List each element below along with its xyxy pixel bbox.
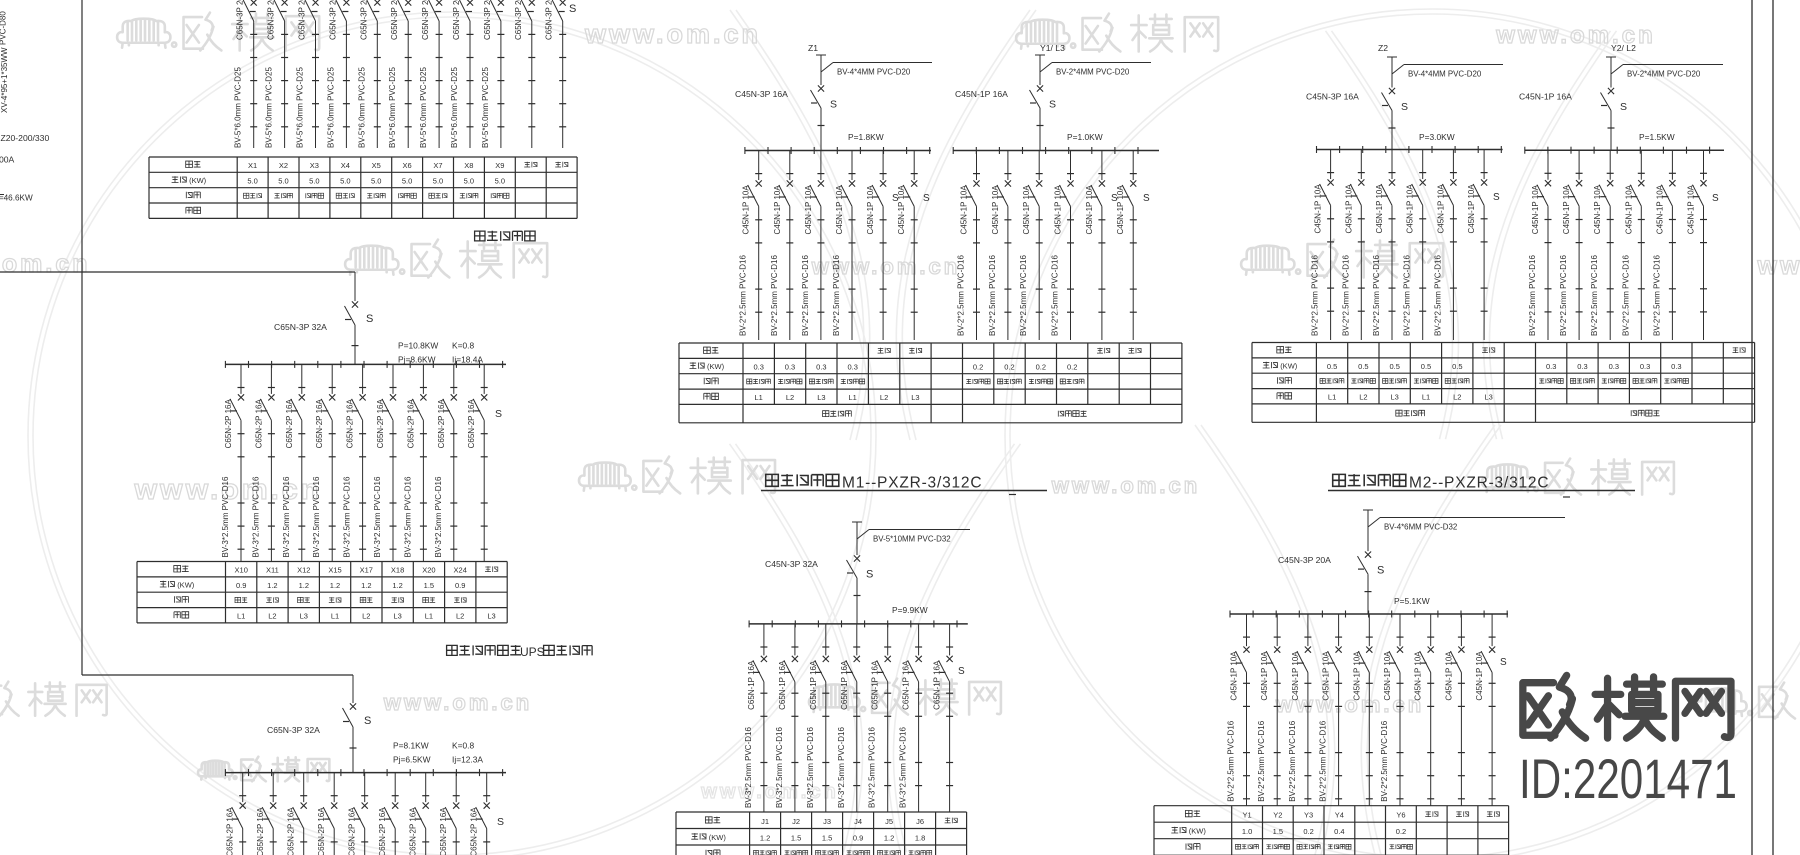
circuit C2: breaker C65N-2P 16A + wire <box>256 773 277 855</box>
svg-text:1.2: 1.2 <box>330 581 340 590</box>
svg-text:0.2: 0.2 <box>1067 362 1077 371</box>
label P=5.1KW <box>1394 596 1430 606</box>
svg-text:Pj=8.6KW: Pj=8.6KW <box>398 355 436 365</box>
svg-text:L1: L1 <box>331 611 339 620</box>
title: small machines power supply <box>475 231 535 241</box>
circuit C7: breaker C65N-2P 16A + wire <box>409 773 430 855</box>
circuit J5: breaker C65N-1P 16A + wire BV-3*2.5mm PVC-D16 <box>868 624 892 812</box>
circuit C3: breaker C65N-2P 16A + wire <box>287 773 308 855</box>
circuit M2-L4: breaker C45N-1P 10A + wire BV-2*2.5mm PVC-D16 <box>1403 150 1427 341</box>
circuit X11: breaker C65N-2P 16A + wire BV-3*2.5mm PVC-D16 <box>251 364 275 561</box>
svg-text:L3: L3 <box>911 393 919 402</box>
svg-text:BV-2*2.5mm PVC-D16: BV-2*2.5mm PVC-D16 <box>1403 255 1412 336</box>
wire: incoming horizontal feed to panel B <box>0 271 355 273</box>
circuit spare: breaker C45N-1P 10A <box>1475 614 1496 806</box>
feeder breaker C65N-3P 32A (panel B) <box>274 301 373 364</box>
svg-text:BV-5*6.0mm PVC-D25: BV-5*6.0mm PVC-D25 <box>419 67 428 148</box>
circuit M2-L6: breaker C45N-1P 10A (spare) <box>1467 150 1488 341</box>
circuit spare: breaker C65N-3P 20A + wire BV-5*6.0mm PVC-D25 <box>514 0 536 148</box>
circuit X7: breaker C65N-3P 20A + wire BV-5*6.0mm PVC-D25 <box>419 0 443 148</box>
svg-text:L2: L2 <box>1453 393 1461 402</box>
svg-text:www.om.cn: www.om.cn <box>0 250 90 278</box>
svg-text:X3: X3 <box>310 161 319 170</box>
svg-text:Y1/ L3: Y1/ L3 <box>1040 43 1065 53</box>
circuit Y1: breaker C45N-1P 10A + wire BV-2*2.5mm PVC-D16 <box>1227 614 1251 806</box>
svg-text:C45N-1P 10A: C45N-1P 10A <box>1444 651 1453 701</box>
svg-text:www.om.cn: www.om.cn <box>700 781 838 803</box>
svg-text:L2: L2 <box>456 611 464 620</box>
svg-text:www.om.cn: www.om.cn <box>1051 473 1200 498</box>
svg-text:BV-2*2.5mm PVC-D16: BV-2*2.5mm PVC-D16 <box>1652 255 1661 336</box>
svg-text:(KW): (KW) <box>189 176 207 185</box>
svg-text:S: S <box>495 408 502 420</box>
svg-text:L2: L2 <box>786 393 794 402</box>
svg-text:0.5: 0.5 <box>1358 362 1368 371</box>
svg-text:C65N-1P 16A: C65N-1P 16A <box>840 660 849 710</box>
svg-text:C45N-1P 10A: C45N-1P 10A <box>1562 184 1571 234</box>
label P=10.8KW Kx=0.8 <box>398 341 474 351</box>
svg-text:BV-3*2.5mm PVC-D16: BV-3*2.5mm PVC-D16 <box>837 727 846 808</box>
svg-text:C65N-2P 16A: C65N-2P 16A <box>315 399 324 449</box>
table: panel G circuit schedule (Y1-Y6) <box>1154 806 1509 855</box>
svg-text:1.0: 1.0 <box>1242 827 1252 836</box>
svg-text:S: S <box>1111 193 1118 204</box>
svg-text:Y6: Y6 <box>1396 811 1405 820</box>
svg-text:P=10.8KW: P=10.8KW <box>398 341 438 351</box>
svg-text:C45N-1P 10A: C45N-1P 10A <box>773 185 782 235</box>
svg-text:C65N-2P 16A: C65N-2P 16A <box>378 807 387 855</box>
svg-text:BV-2*4MM PVC-D20: BV-2*4MM PVC-D20 <box>1056 68 1130 77</box>
svg-text:P=3.0KW: P=3.0KW <box>1419 132 1455 142</box>
svg-text:C65N-3P 20A: C65N-3P 20A <box>359 0 368 40</box>
table: M1 circuit schedule <box>679 343 1182 423</box>
label Pj=46.6KW <box>0 194 33 203</box>
svg-text:1.2: 1.2 <box>361 581 371 590</box>
svg-text:0.9: 0.9 <box>853 833 863 842</box>
svg-text:BV-3*2.5mm PVC-D16: BV-3*2.5mm PVC-D16 <box>806 727 815 808</box>
svg-text:P=8.1KW: P=8.1KW <box>393 741 429 751</box>
label P=1.0KW <box>1067 132 1103 142</box>
svg-text:5.0: 5.0 <box>340 177 350 186</box>
svg-text:L2: L2 <box>362 611 370 620</box>
svg-text:0.2: 0.2 <box>1036 362 1046 371</box>
label P=9.9KW <box>892 605 928 615</box>
site logo stamp OMW <box>1523 675 1731 738</box>
svg-text:C45N-1P 16A: C45N-1P 16A <box>1519 92 1572 102</box>
svg-text:Ij=12.3A: Ij=12.3A <box>452 755 483 765</box>
svg-text:X8: X8 <box>464 161 473 170</box>
svg-text:C45N-1P 10A: C45N-1P 10A <box>1406 184 1415 234</box>
circuit M1-E5: breaker C45N-1P 10A (spare) <box>1085 151 1106 341</box>
svg-text:X1: X1 <box>248 161 257 170</box>
label P=8.1KW Kx=0.8 <box>393 741 474 751</box>
svg-text:BV-5*6.0mm PVC-D25: BV-5*6.0mm PVC-D25 <box>481 67 490 148</box>
svg-text:0.3: 0.3 <box>1671 362 1681 371</box>
circuit C1: breaker C65N-2P 16A + wire <box>226 773 247 855</box>
subfeed label Z1 <box>808 43 818 53</box>
svg-text:BV-5*6.0mm PVC-D25: BV-5*6.0mm PVC-D25 <box>450 67 459 148</box>
svg-text:X24: X24 <box>454 566 467 575</box>
table: panel B circuit schedule (X10-X24) <box>137 562 507 623</box>
spare mark S (panel C) <box>497 816 504 828</box>
circuit spare: breaker C45N-1P 10A <box>1444 614 1465 806</box>
svg-text:S: S <box>830 99 837 111</box>
circuit M1-E1: breaker C45N-1P 10A + wire BV-2*2.5mm PVC-D16 <box>957 151 981 341</box>
svg-text:C65N-3P 20A: C65N-3P 20A <box>514 0 523 40</box>
subfeed label Z2 <box>1378 43 1388 53</box>
feeder breaker C45N-3P 20A (panel G) + cable BV-4*6MM PVC-D32 <box>1278 510 1565 614</box>
svg-text:S: S <box>1493 192 1500 203</box>
bus: panel G busbar <box>1230 611 1508 618</box>
svg-text:C65N-2P 16A: C65N-2P 16A <box>254 399 263 449</box>
circuit X9: breaker C65N-3P 20A + wire BV-5*6.0mm PVC-D25 <box>481 0 505 148</box>
svg-text:BV-5*6.0mm PVC-D25: BV-5*6.0mm PVC-D25 <box>296 67 305 148</box>
svg-text:BV-4*4MM PVC-D20: BV-4*4MM PVC-D20 <box>1408 70 1482 79</box>
svg-text:(KW): (KW) <box>709 833 727 842</box>
svg-text:P=9.9KW: P=9.9KW <box>892 605 928 615</box>
svg-text:BV-2*2.5mm PVC-D16: BV-2*2.5mm PVC-D16 <box>801 255 810 336</box>
svg-text:L2: L2 <box>268 611 276 620</box>
svg-text:BV-4*4MM PVC-D20: BV-4*4MM PVC-D20 <box>837 68 911 77</box>
svg-text:S: S <box>366 313 373 325</box>
spare marks S (Z1) <box>892 193 930 204</box>
svg-text:0.5: 0.5 <box>1327 362 1337 371</box>
svg-text:X17: X17 <box>360 566 373 575</box>
svg-text:C45N-3P 32A: C45N-3P 32A <box>765 559 818 569</box>
bus: panel C distribution busbar <box>225 769 506 776</box>
svg-text:C45N-1P 10A: C45N-1P 10A <box>742 185 751 235</box>
circuit M2-E4: breaker C45N-1P 10A + wire BV-2*2.5mm PVC-D16 <box>1621 150 1645 340</box>
svg-text:M1--PXZR-3/312C: M1--PXZR-3/312C <box>842 475 982 492</box>
feeder breaker C45N-3P 32A (panel E) + cable BV-5*10MM PVC-D32 <box>765 522 970 624</box>
svg-text:0.4: 0.4 <box>1334 827 1344 836</box>
svg-text:BV-2*2.5mm PVC-D16: BV-2*2.5mm PVC-D16 <box>1227 720 1236 801</box>
svg-text:C45N-1P 16A: C45N-1P 16A <box>955 89 1008 99</box>
svg-text:BV-2*2.5mm PVC-D16: BV-2*2.5mm PVC-D16 <box>1257 720 1266 801</box>
wire: drop to panel C breaker <box>352 675 354 703</box>
bus: M2 normal lighting busbar (Z2) <box>1317 146 1503 153</box>
circuit M1-L4: breaker C45N-1P 10A + wire BV-2*2.5mm PVC-D16 <box>832 151 856 341</box>
circuit Y2: breaker C45N-1P 10A + wire BV-2*2.5mm PVC-D16 <box>1257 614 1281 806</box>
svg-text:C45N-3P 20A: C45N-3P 20A <box>1278 555 1331 565</box>
svg-text:BV-3*2.5mm PVC-D16: BV-3*2.5mm PVC-D16 <box>312 476 321 557</box>
table: panel E circuit schedule (J1-J6) <box>676 812 967 855</box>
circuit X17: breaker C65N-2P 16A + wire BV-3*2.5mm PVC-D16 <box>343 364 367 561</box>
svg-text:Y3: Y3 <box>1304 811 1313 820</box>
svg-text:L3: L3 <box>487 611 495 620</box>
circuit spare: breaker C65N-2P 16A + wire BV-3*2.5mm PVC-D16 <box>467 364 488 561</box>
svg-text:C65N-2P 16A: C65N-2P 16A <box>437 399 446 449</box>
svg-text:BV-2*2.5mm PVC-D16: BV-2*2.5mm PVC-D16 <box>1372 255 1381 336</box>
svg-text:0.2: 0.2 <box>1303 827 1313 836</box>
svg-text:C45N-1P 10A: C45N-1P 10A <box>1375 184 1384 234</box>
svg-text:Z2: Z2 <box>1378 43 1388 53</box>
svg-text:BV-2*2.5mm PVC-D16: BV-2*2.5mm PVC-D16 <box>1019 255 1028 336</box>
circuit X2: breaker C65N-3P 20A + wire BV-5*6.0mm PVC-D25 <box>265 0 289 148</box>
circuit C9: breaker C65N-2P 16A + wire <box>470 773 491 855</box>
subfeed label Y2/L2 <box>1611 43 1636 53</box>
svg-text:C45N-1P 10A: C45N-1P 10A <box>1314 184 1323 234</box>
svg-text:C65N-2P 16A: C65N-2P 16A <box>285 399 294 449</box>
svg-text:1.5: 1.5 <box>822 833 832 842</box>
circuit M2-E5: breaker C45N-1P 10A + wire BV-2*2.5mm PVC-D16 <box>1652 150 1676 340</box>
circuit M1-L5: breaker C45N-1P 10A (spare) <box>866 151 887 341</box>
svg-text:C45N-1P 10A: C45N-1P 10A <box>1260 651 1269 701</box>
svg-text:C45N-1P 10A: C45N-1P 10A <box>1593 184 1602 234</box>
svg-text:S: S <box>1500 657 1507 668</box>
svg-text:X2: X2 <box>279 161 288 170</box>
svg-text:BV-2*2.5mm PVC-D16: BV-2*2.5mm PVC-D16 <box>1528 255 1537 336</box>
svg-text:BV-2*2.5mm PVC-D16: BV-2*2.5mm PVC-D16 <box>1319 720 1328 801</box>
svg-text:0.2: 0.2 <box>1396 827 1406 836</box>
svg-text:1.5: 1.5 <box>1273 827 1283 836</box>
wire: horizontal feed from trunk to panel C <box>82 674 353 676</box>
svg-text:BV-3*2.5mm PVC-D16: BV-3*2.5mm PVC-D16 <box>434 476 443 557</box>
svg-text:0.3: 0.3 <box>816 362 826 371</box>
circuit M2-L1: breaker C45N-1P 10A + wire BV-2*2.5mm PVC-D16 <box>1311 150 1335 341</box>
svg-text:UPS: UPS <box>520 645 545 659</box>
svg-text:C45N-1P 10A: C45N-1P 10A <box>1054 185 1063 235</box>
svg-text:5.0: 5.0 <box>247 177 257 186</box>
label P=3.0KW <box>1419 132 1455 142</box>
svg-text:C45N-1P 10A: C45N-1P 10A <box>991 185 1000 235</box>
svg-text:BV-2*2.5mm PVC-D16: BV-2*2.5mm PVC-D16 <box>1341 255 1350 336</box>
svg-text:BV-5*6.0mm PVC-D25: BV-5*6.0mm PVC-D25 <box>357 67 366 148</box>
svg-text:S: S <box>1712 193 1719 204</box>
svg-text:J6: J6 <box>916 817 924 826</box>
svg-text:BV-2*2.5mm PVC-D16: BV-2*2.5mm PVC-D16 <box>988 255 997 336</box>
svg-text:C45N-1P 10A: C45N-1P 10A <box>1322 651 1331 701</box>
svg-text:C65N-2P 16A: C65N-2P 16A <box>226 807 235 855</box>
svg-text:S: S <box>1620 101 1627 113</box>
svg-text:C45N-1P 10A: C45N-1P 10A <box>1344 184 1353 234</box>
label 200A <box>0 155 15 165</box>
svg-text:BV-2*2.5mm PVC-D16: BV-2*2.5mm PVC-D16 <box>832 255 841 336</box>
svg-text:BV-3*2.5mm PVC-D16: BV-3*2.5mm PVC-D16 <box>899 727 908 808</box>
svg-text:L2: L2 <box>1359 393 1367 402</box>
svg-text:C65N-1P 16A: C65N-1P 16A <box>871 660 880 710</box>
svg-text:S: S <box>1377 565 1384 577</box>
spare mark S (panel B) <box>495 408 502 420</box>
svg-text:BV-3*2.5mm PVC-D16: BV-3*2.5mm PVC-D16 <box>868 727 877 808</box>
svg-text:C65N-1P 16A: C65N-1P 16A <box>809 660 818 710</box>
circuit M1-L3: breaker C45N-1P 10A + wire BV-2*2.5mm PVC-D16 <box>801 151 825 341</box>
circuit spare: breaker C45N-1P 10A <box>1414 614 1435 806</box>
circuit X20: breaker C65N-2P 16A + wire BV-3*2.5mm PVC-D16 <box>403 364 427 561</box>
svg-text:BV-2*2.5mm PVC-D16: BV-2*2.5mm PVC-D16 <box>1311 255 1320 336</box>
svg-text:S: S <box>1143 193 1150 204</box>
svg-text:0.3: 0.3 <box>753 362 763 371</box>
circuit X1: breaker C65N-3P 20A + wire BV-5*6.0mm PVC-D25 <box>234 0 258 148</box>
svg-text:BV-5*6.0mm PVC-D25: BV-5*6.0mm PVC-D25 <box>265 67 274 148</box>
svg-text:1.2: 1.2 <box>267 581 277 590</box>
svg-text:C65N-3P 20A: C65N-3P 20A <box>452 0 461 40</box>
circuit X5: breaker C65N-3P 20A + wire BV-5*6.0mm PVC-D25 <box>357 0 381 148</box>
svg-text:5.0: 5.0 <box>278 177 288 186</box>
svg-text:C45N-1P 10A: C45N-1P 10A <box>1352 651 1361 701</box>
subfeed label Y1/L3 <box>1040 43 1065 53</box>
svg-text:C65N-2P 16A: C65N-2P 16A <box>406 399 415 449</box>
circuit X3: breaker C65N-3P 20A + wire BV-5*6.0mm PVC-D25 <box>296 0 320 148</box>
svg-text:BV-2*2.5mm PVC-D16: BV-2*2.5mm PVC-D16 <box>1288 720 1297 801</box>
svg-text:S: S <box>497 816 504 828</box>
svg-text:BV-2*2.5mm PVC-D16: BV-2*2.5mm PVC-D16 <box>770 255 779 336</box>
bus: panel B distribution busbar <box>225 361 506 368</box>
svg-text:(KW): (KW) <box>1280 362 1298 371</box>
svg-text:X11: X11 <box>266 566 279 575</box>
svg-text:C45N-1P 10A: C45N-1P 10A <box>835 185 844 235</box>
circuit J4: breaker C65N-1P 16A + wire BV-3*2.5mm PVC-D16 <box>837 624 860 812</box>
circuit M2-E1: breaker C45N-1P 10A + wire BV-2*2.5mm PVC-D16 <box>1528 150 1552 340</box>
circuit C4: breaker C65N-2P 16A + wire <box>317 773 338 855</box>
svg-text:C45N-1P 10A: C45N-1P 10A <box>866 185 875 235</box>
svg-text:C45N-3P 16A: C45N-3P 16A <box>735 89 788 99</box>
svg-text:C65N-1P 16A: C65N-1P 16A <box>933 660 942 710</box>
svg-text:1.2: 1.2 <box>884 833 894 842</box>
svg-text:0.9: 0.9 <box>236 581 246 590</box>
svg-text:www.om.cn: www.om.cn <box>383 690 532 715</box>
svg-text:C65N-2P 16A: C65N-2P 16A <box>346 399 355 449</box>
svg-text:C65N-2P 16A: C65N-2P 16A <box>467 399 476 449</box>
svg-text:J1: J1 <box>761 817 769 826</box>
svg-text:C65N-2P 16A: C65N-2P 16A <box>224 399 233 449</box>
circuit spare: breaker C45N-1P 10A <box>1352 614 1373 806</box>
circuit M2-L5: breaker C45N-1P 10A + wire BV-2*2.5mm PVC-D16 <box>1433 150 1457 341</box>
svg-text:S: S <box>1401 101 1408 113</box>
svg-text:BV-3*2.5mm PVC-D16: BV-3*2.5mm PVC-D16 <box>373 476 382 557</box>
svg-text:C45N-1P 10A: C45N-1P 10A <box>1230 651 1239 701</box>
svg-text:BV-2*2.5mm PVC-D16: BV-2*2.5mm PVC-D16 <box>1559 255 1568 336</box>
svg-text:0.5: 0.5 <box>1452 362 1462 371</box>
svg-text:C45N-1P 10A: C45N-1P 10A <box>1467 184 1476 234</box>
svg-text:BV-3*2.5mm PVC-D16: BV-3*2.5mm PVC-D16 <box>744 727 753 808</box>
circuit X4: breaker C65N-3P 20A + wire BV-5*6.0mm PVC-D25 <box>326 0 350 148</box>
svg-text:0.2: 0.2 <box>973 362 983 371</box>
label P=1.5KW <box>1639 132 1675 142</box>
svg-text:www.om.cn: www.om.cn <box>1757 252 1800 280</box>
circuit X18: breaker C65N-2P 16A + wire BV-3*2.5mm PVC-D16 <box>373 364 397 561</box>
circuit C8: breaker C65N-2P 16A + wire <box>439 773 460 855</box>
feeder breaker C65N-3P 32A (panel C) <box>267 703 371 772</box>
svg-text:L2: L2 <box>880 393 888 402</box>
svg-text:BV-2*2.5mm PVC-D16: BV-2*2.5mm PVC-D16 <box>957 255 966 336</box>
svg-text:00A: 00A <box>0 155 15 165</box>
svg-text:J2: J2 <box>792 817 800 826</box>
circuit J3: breaker C65N-1P 16A + wire BV-3*2.5mm PVC-D16 <box>806 624 830 812</box>
svg-text:C65N-3P 20A: C65N-3P 20A <box>483 0 492 40</box>
svg-text:S: S <box>958 666 965 677</box>
circuit M2-L2: breaker C45N-1P 10A + wire BV-2*2.5mm PVC-D16 <box>1341 150 1365 341</box>
table: M2 circuit schedule <box>1252 343 1755 423</box>
table: panel A circuit schedule (X1-X9) <box>149 157 577 218</box>
svg-text:0.5: 0.5 <box>1421 362 1431 371</box>
svg-text:C65N-1P 16A: C65N-1P 16A <box>902 660 911 710</box>
feeder breaker C45N-3P 16A (Z1) + cable BV-4*4MM PVC-D20 <box>735 55 932 151</box>
svg-text:X12: X12 <box>297 566 310 575</box>
svg-text:L1: L1 <box>1422 393 1430 402</box>
spare marks S (Y1) <box>1111 193 1150 204</box>
bus: M1 emergency lighting busbar (Y1) <box>953 147 1159 154</box>
svg-text:BV-4*6MM PVC-D32: BV-4*6MM PVC-D32 <box>1384 523 1457 532</box>
svg-text:BV-2*2.5mm PVC-D16: BV-2*2.5mm PVC-D16 <box>1433 255 1442 336</box>
svg-text:S: S <box>569 3 576 15</box>
svg-text:BV-3*2.5mm PVC-D16: BV-3*2.5mm PVC-D16 <box>343 476 352 557</box>
circuit Y6: breaker C45N-1P 10A + wire BV-2*2.5mm PVC-D16 <box>1380 614 1404 806</box>
svg-text:C65N-3P 20A: C65N-3P 20A <box>545 0 554 40</box>
svg-text:C65N-2P 16A: C65N-2P 16A <box>256 807 265 855</box>
svg-text:BV-3*2.5mm PVC-D16: BV-3*2.5mm PVC-D16 <box>282 476 291 557</box>
svg-text:BV-2*2.5mm PVC-D16: BV-2*2.5mm PVC-D16 <box>1621 255 1630 336</box>
circuit X6: breaker C65N-3P 20A + wire BV-5*6.0mm PVC-D25 <box>388 0 412 148</box>
svg-text:1.2: 1.2 <box>299 581 309 590</box>
label P=1.8KW <box>848 132 884 142</box>
svg-text:L3: L3 <box>817 393 825 402</box>
svg-text:C65N-3P 20A: C65N-3P 20A <box>328 0 337 40</box>
svg-text:0.3: 0.3 <box>1577 362 1587 371</box>
svg-text:C65N-3P 20A: C65N-3P 20A <box>267 0 276 40</box>
svg-text:Z1: Z1 <box>808 43 818 53</box>
svg-text:L1: L1 <box>755 393 763 402</box>
label Pj=6.5KW Ij=12.3A <box>393 755 483 765</box>
svg-text:0.2: 0.2 <box>1004 362 1014 371</box>
spare mark S (panel A) <box>569 3 576 15</box>
circuit spare: breaker C65N-3P 20A + wire BV-5*6.0mm PVC-D25 <box>545 0 567 148</box>
svg-text:C65N-3P 20A: C65N-3P 20A <box>421 0 430 40</box>
svg-text:L3: L3 <box>393 611 401 620</box>
svg-text:C65N-1P 16A: C65N-1P 16A <box>747 660 756 710</box>
svg-text:S: S <box>866 569 873 581</box>
svg-text:C65N-2P 16A: C65N-2P 16A <box>439 807 448 855</box>
svg-text:P=1.0KW: P=1.0KW <box>1067 132 1103 142</box>
svg-text:1.5: 1.5 <box>424 581 434 590</box>
svg-text:L3: L3 <box>1484 393 1492 402</box>
circuit spare: breaker C65N-1P 16A (spare) <box>933 624 954 812</box>
svg-text:1.2: 1.2 <box>760 833 770 842</box>
title: lighting distribution box M1--PXZR-3/312C <box>761 474 1047 494</box>
svg-text:L3: L3 <box>300 611 308 620</box>
spare mark S (panel G) <box>1500 657 1507 668</box>
svg-text:P=5.1KW: P=5.1KW <box>1394 596 1430 606</box>
svg-text:BV-3*2.5mm PVC-D16: BV-3*2.5mm PVC-D16 <box>775 727 784 808</box>
svg-text:C45N-1P 10A: C45N-1P 10A <box>804 185 813 235</box>
svg-text:K=0.8: K=0.8 <box>452 741 474 751</box>
circuit J2: breaker C65N-1P 16A + wire BV-3*2.5mm PVC-D16 <box>775 624 799 812</box>
svg-text:0.3: 0.3 <box>1609 362 1619 371</box>
svg-text:5.0: 5.0 <box>495 177 505 186</box>
circuit M2-E3: breaker C45N-1P 10A + wire BV-2*2.5mm PVC-D16 <box>1590 150 1614 340</box>
circuit J1: breaker C65N-1P 16A + wire BV-3*2.5mm PVC-D16 <box>744 624 768 812</box>
svg-text:BV-2*2.5mm PVC-D16: BV-2*2.5mm PVC-D16 <box>1380 720 1389 801</box>
circuit Y4: breaker C45N-1P 10A + wire BV-2*2.5mm PVC-D16 <box>1319 614 1343 806</box>
svg-text:L1: L1 <box>849 393 857 402</box>
svg-text:L1: L1 <box>237 611 245 620</box>
svg-text:X9: X9 <box>495 161 504 170</box>
svg-text:J5: J5 <box>885 817 893 826</box>
svg-text:5.0: 5.0 <box>464 177 474 186</box>
svg-text:X5: X5 <box>372 161 381 170</box>
svg-text:C65N-2P 16A: C65N-2P 16A <box>317 807 326 855</box>
svg-text:C65N-3P 32A: C65N-3P 32A <box>267 725 320 735</box>
svg-text:X7: X7 <box>433 161 442 170</box>
spare mark S (panel E) <box>958 666 965 677</box>
svg-text:K=0.8: K=0.8 <box>452 341 474 351</box>
title: server room UPS power sockets <box>447 645 592 659</box>
svg-text:C65N-2P 16A: C65N-2P 16A <box>409 807 418 855</box>
svg-text:X15: X15 <box>328 566 341 575</box>
svg-text:C65N-3P 20A: C65N-3P 20A <box>298 0 307 40</box>
main breaker label DZ20-200/330 <box>1 133 50 143</box>
feeder breaker C45N-3P 16A (Z2) + cable BV-4*4MM PVC-D20 <box>1306 57 1503 150</box>
